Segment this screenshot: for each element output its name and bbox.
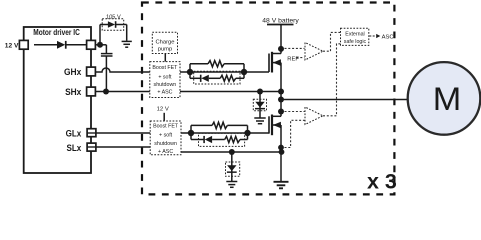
svg-text:105 V: 105 V	[106, 15, 121, 21]
svg-text:12 V: 12 V	[5, 43, 19, 50]
svg-text:Boost FET: Boost FET	[152, 65, 178, 71]
svg-text:ASC: ASC	[382, 35, 394, 41]
svg-text:48 V battery: 48 V battery	[262, 17, 299, 24]
svg-text:REF: REF	[287, 56, 299, 62]
svg-text:GHx: GHx	[64, 67, 81, 77]
svg-text:+ ASC: + ASC	[158, 149, 173, 155]
svg-text:+ ASC: + ASC	[157, 89, 172, 95]
svg-text:safe logic: safe logic	[344, 39, 367, 45]
svg-text:+ soft: + soft	[158, 75, 172, 81]
svg-text:x 3: x 3	[367, 169, 397, 193]
svg-text:+ soft: + soft	[159, 132, 173, 138]
svg-text:SHx: SHx	[65, 87, 81, 97]
svg-text:External: External	[345, 31, 364, 37]
svg-text:Charge: Charge	[155, 39, 174, 45]
svg-text:SLx: SLx	[67, 143, 82, 153]
svg-text:12 V: 12 V	[157, 107, 169, 113]
svg-text:Boost FET: Boost FET	[153, 124, 179, 130]
svg-text:GLx: GLx	[66, 128, 82, 138]
svg-text:pump: pump	[158, 47, 173, 53]
svg-text:M: M	[433, 81, 462, 117]
svg-text:shutdown: shutdown	[154, 82, 177, 88]
svg-text:Motor driver IC: Motor driver IC	[33, 28, 80, 37]
svg-text:shutdown: shutdown	[154, 141, 177, 147]
